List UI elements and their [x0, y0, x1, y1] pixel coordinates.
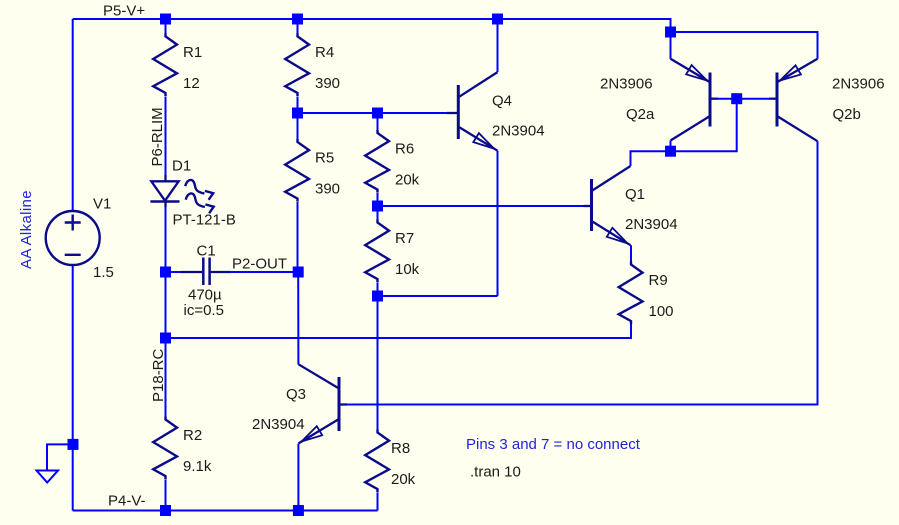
svg-text:390: 390 [315, 75, 340, 92]
resistor R9 [619, 262, 643, 325]
voltage source V1 [46, 211, 100, 265]
svg-text:AA Alkaline: AA Alkaline [18, 190, 35, 269]
wire R7 to node [377, 283, 379, 297]
svg-text:R5: R5 [315, 150, 334, 167]
junction R7-Q4emitter [372, 291, 383, 302]
svg-text:P2-OUT: P2-OUT [232, 256, 287, 273]
svg-text:ic=0.5: ic=0.5 [184, 302, 224, 319]
wire Q1 emitter to R9 [630, 245, 632, 261]
svg-text:Q4: Q4 [492, 93, 512, 110]
svg-text:R1: R1 [183, 44, 202, 61]
svg-text:100: 100 [649, 303, 674, 320]
wire R5 to C1 node [297, 202, 299, 272]
wire R1 to D1 [165, 97, 167, 179]
wire D1 to R2 column [165, 207, 167, 417]
wire C1 left lead wire [166, 271, 182, 273]
wire row R6/R7/Q1 base [378, 205, 584, 207]
wire node to R7 [377, 206, 379, 220]
wire node to R6 [377, 113, 379, 130]
junction R6-R7-Q1base [372, 201, 383, 212]
svg-text:Q2a: Q2a [626, 106, 655, 123]
svg-text:12: 12 [183, 75, 200, 92]
junction rail-R4 [292, 14, 303, 25]
wire R4 to node row [297, 97, 299, 114]
svg-text:D1: D1 [172, 158, 191, 175]
resistor R5 [285, 139, 309, 202]
svg-text:Q3: Q3 [286, 386, 306, 403]
wire V1 top lead [72, 19, 74, 212]
svg-text:R7: R7 [395, 230, 414, 247]
svg-text:10k: 10k [395, 261, 420, 278]
svg-text:.tran 10: .tran 10 [470, 464, 521, 481]
wire Q2b collector to Q3 base [347, 141, 818, 404]
wire R8 to rail [377, 493, 379, 511]
capacitor C1 [181, 258, 231, 286]
resistor R4 [285, 33, 309, 96]
svg-text:V1: V1 [93, 196, 111, 213]
wire R6 to node [377, 193, 379, 206]
wire Q2a collector wire [670, 141, 672, 152]
resistor R8 [365, 430, 389, 493]
svg-text:Pins 3 and 7 = no connect: Pins 3 and 7 = no connect [466, 436, 641, 453]
resistor R1 [153, 33, 177, 96]
wire V+ to Q2a emitter [670, 32, 672, 59]
svg-text:2N3904: 2N3904 [252, 416, 305, 433]
svg-text:470µ: 470µ [188, 287, 222, 304]
ground [37, 471, 59, 483]
transistor Q2a [671, 59, 719, 141]
junction rail-Q4 [492, 14, 503, 25]
wire node to Q3 collector [297, 272, 299, 365]
junction C1 right [293, 267, 304, 278]
svg-text:P5-V+: P5-V+ [103, 3, 145, 20]
svg-text:R8: R8 [391, 440, 410, 457]
svg-text:Q2b: Q2b [833, 106, 861, 123]
wire row R7/Q4 emitter [378, 295, 498, 297]
wire row R4/R6/Q4 base [298, 112, 448, 114]
svg-text:20k: 20k [391, 471, 416, 488]
D1 light arrow 2 [186, 193, 214, 213]
D1 light arrow 1 [185, 180, 213, 200]
wire rail to Q4 collector [497, 19, 499, 72]
junction rail-Q3 emitter [293, 505, 304, 516]
svg-text:C1: C1 [197, 243, 216, 260]
transistor Q2b [769, 59, 818, 141]
wire rail to R4 [297, 19, 299, 34]
svg-text:R6: R6 [395, 141, 414, 158]
svg-text:P6-RLIM: P6-RLIM [149, 107, 166, 166]
junction rail corner node [665, 27, 676, 38]
transistor Q3 [299, 364, 348, 443]
junction Q1coll-Q2a coll [665, 146, 676, 157]
wire Q1 collector to base node [631, 99, 737, 166]
transistor Q4 [447, 72, 498, 151]
resistor R6 [365, 130, 389, 193]
svg-text:P18-RC: P18-RC [150, 348, 167, 402]
junction rail-R2 [160, 505, 171, 516]
junction row-R6 [372, 108, 383, 119]
wire P2-OUT wire [230, 271, 298, 273]
svg-text:P4-V-: P4-V- [108, 493, 146, 510]
svg-text:2N3904: 2N3904 [625, 216, 678, 233]
wire ground tap [47, 444, 73, 470]
svg-text:9.1k: 9.1k [183, 458, 212, 475]
junction ground node [68, 439, 79, 450]
wire node to R5 [297, 113, 299, 139]
wire rail to R1 [165, 19, 167, 34]
resistor R2 [153, 417, 177, 480]
junction P18-RC node [160, 333, 171, 344]
LED D1 [150, 175, 179, 207]
svg-text:2N3904: 2N3904 [492, 123, 545, 140]
wire node to R8 [377, 296, 379, 430]
wire V+ to Q2b emitter [671, 32, 818, 59]
svg-text:2N3906: 2N3906 [600, 76, 653, 93]
transistor Q1 [584, 166, 631, 245]
wire Q4 emitter down [497, 151, 499, 296]
svg-text:R9: R9 [649, 272, 668, 289]
resistor R7 [365, 220, 389, 283]
wire top rail V+ [73, 19, 671, 32]
svg-text:R2: R2 [183, 427, 202, 444]
wire Q3 emitter to rail [297, 444, 299, 511]
svg-text:Q1: Q1 [625, 186, 645, 203]
wire R9 to P18-RC row [166, 322, 632, 338]
svg-text:20k: 20k [395, 172, 420, 189]
wire R2 to rail [165, 480, 167, 511]
junction Q2 bases [731, 93, 742, 104]
wire bottom rail V- [73, 510, 378, 512]
junction R4-R5 [292, 108, 303, 119]
wire Q2a/Q2b base wire [718, 98, 769, 100]
junction rail-R1 [160, 14, 171, 25]
svg-text:2N3906: 2N3906 [832, 76, 885, 93]
svg-text:PT-121-B: PT-121-B [173, 212, 236, 229]
svg-text:R4: R4 [315, 44, 334, 61]
junction C1 left [160, 267, 171, 278]
svg-text:390: 390 [315, 181, 340, 198]
svg-text:1.5: 1.5 [93, 264, 114, 281]
wire V1 bottom lead [72, 265, 74, 511]
